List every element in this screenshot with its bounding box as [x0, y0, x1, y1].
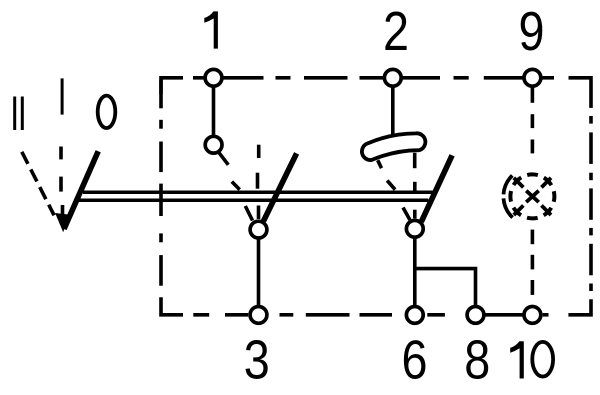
wire T2 to shoe: [391, 78, 395, 140]
position I dashed travel line: [61, 147, 63, 217]
wire pivot3 to T6: [413, 229, 417, 315]
label terminal 10 digit 1: [510, 341, 524, 378]
frame bottom edge (dash-dot): [193, 313, 548, 317]
switch S2 shoe contact: [362, 133, 426, 160]
terminal 3 circle: [250, 307, 267, 324]
lamp X arm NE: [541, 178, 551, 188]
label terminal 10 digit 0: [532, 342, 553, 377]
lamp dashed connector upper: [531, 114, 535, 153]
terminal 2 circle: [384, 69, 401, 86]
svg-text:6: 6: [401, 329, 427, 390]
frame left edge (dash-dot): [161, 80, 183, 315]
shoe left leg: [378, 160, 382, 168]
label position 0: [98, 96, 116, 128]
switch S2 dashed path II: [387, 181, 395, 190]
svg-text:9: 9: [518, 0, 544, 61]
lamp X arm NW: [514, 178, 524, 188]
pivot circle switch S1: [250, 221, 267, 238]
switch S1 stub vertical at pivot: [257, 206, 261, 220]
terminal 6 circle: [406, 307, 423, 324]
lamp X arm SW: [514, 205, 524, 215]
contact circle of terminal 1: [205, 136, 222, 153]
position II dashed travel line: [22, 152, 54, 216]
switch S2 dashed path I: [413, 182, 417, 192]
wire pivot1 to T3: [257, 230, 261, 315]
switch S1 dashed path I: [258, 145, 259, 189]
wire T1 to contact: [212, 78, 216, 145]
mechanical coupling double line: [79, 192, 436, 200]
wire branch to T8: [415, 269, 476, 315]
switch S1 contact stub: [219, 152, 229, 165]
switch S2 stub diagonal at pivot: [403, 208, 410, 220]
svg-text:2: 2: [383, 0, 409, 61]
lamp reflector arc: [504, 176, 513, 218]
lamp dashed connector lower: [531, 230, 535, 295]
switch S1 lever: [264, 153, 297, 221]
frame right edge (dash-dot): [568, 116, 591, 315]
pivot circle switch S2: [406, 220, 423, 237]
terminal 9 circle: [524, 69, 541, 86]
terminal 8 circle: [467, 307, 484, 324]
svg-text:8: 8: [464, 329, 490, 390]
switch S2 stub vertical at pivot: [413, 210, 417, 219]
actuator lever position 0: [64, 151, 98, 229]
label terminal 1: [204, 11, 218, 48]
wire 8-10 bridge: [476, 313, 533, 317]
switch S1 dashed path II: [232, 182, 240, 190]
switch S1 stub diagonal at pivot: [245, 206, 252, 221]
frame top edge (dash-dot): [161, 78, 591, 108]
switch S2 lever: [421, 155, 452, 222]
terminal 10 circle: [524, 307, 541, 324]
actuator arrowhead: [55, 213, 69, 232]
shoe right leg: [413, 153, 417, 168]
terminal 1 circle: [205, 69, 222, 86]
lamp X arm SE: [541, 205, 551, 215]
wire T9 stub: [531, 78, 535, 103]
svg-text:3: 3: [244, 329, 270, 390]
label position I: [61, 78, 64, 114]
label position II: [15, 97, 23, 131]
lamp center x: [526, 191, 539, 202]
lamp L1 dashed circle: [510, 174, 554, 218]
